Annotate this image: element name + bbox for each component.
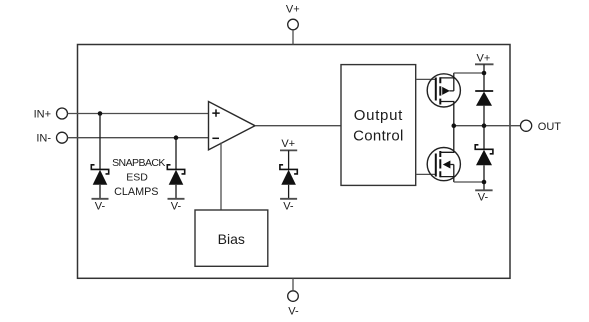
wire Q1 source to V+ node [454,72,484,74]
wire IN- node down to ESD clamp D2 [175,138,177,170]
transistor Q2 body arrow [443,161,451,169]
svg-text:ESD: ESD [126,172,148,184]
snapback ESD diode D1 cathode [91,165,108,174]
wire D1 anode to V- bar [99,185,101,199]
V+ rail bar above supply clamp D3 [280,149,297,151]
wire IN+ node down to ESD clamp D1 [99,114,101,171]
junction node Q1/Q2 drains [452,123,457,128]
terminal V+ top pin [288,19,299,30]
svg-text:IN+: IN+ [34,109,51,121]
diode D4 cathode bar [475,90,493,92]
V+ rail bar output stage [475,63,494,65]
svg-text:V+: V+ [281,138,295,150]
svg-text:V-: V- [288,306,299,318]
transistor Q1 source stub to V+ [440,73,454,91]
snapback diode D5 anode triangle [476,150,492,166]
terminal IN+ pin [57,108,68,119]
junction node output / diodes [482,123,487,128]
transistor Q2 gate bar [435,154,437,177]
svg-text:Bias: Bias [218,231,245,247]
wire V+ bar to supply clamp D3 [288,150,290,170]
wire D3 anode to V- bar [288,185,290,199]
wire op-amp output to Output Control [255,125,341,127]
transistor Q1 channel segments [439,77,441,104]
snapback ESD diode D1 anode triangle [93,170,108,185]
transistor Q1 drain stub down [440,102,454,126]
V- rail bar under D2 [168,198,185,200]
transistor Q2 source stub down [440,165,454,183]
wire V- pin to box bottom [292,278,294,291]
svg-text:Control: Control [353,128,403,145]
op-amp A1 minus input marker [212,137,219,139]
transistor Q2 (NMOS) body circle [427,148,460,181]
junction node IN- / ESD clamp D2 [174,135,179,140]
wire Q2 source to V- node [454,181,484,183]
svg-text:SNAPBACK: SNAPBACK [112,157,165,169]
wire D2 anode to V- bar [175,185,177,199]
svg-text:V+: V+ [286,4,300,16]
wire V+ bar down to diode D4 [483,64,485,91]
terminal IN- pin [57,132,68,143]
V- rail bar under D3 [280,198,297,200]
junction node Q2 source / D5 [482,180,487,185]
snapback ESD diode D2 anode triangle [169,170,184,185]
op-amp A1 triangle [209,102,256,150]
svg-text:V-: V- [95,200,106,212]
wire op-amp to Bias block [220,143,222,211]
svg-text:V-: V- [283,200,294,212]
svg-text:CLAMPS: CLAMPS [114,186,158,198]
snapback supply clamp diode D3 cathode [280,165,297,174]
V- rail bar output stage [475,189,492,191]
terminal OUT pin [521,120,532,131]
snapback ESD diode D2 cathode [167,165,184,174]
wire D5 anode to V- bar [483,165,485,190]
transistor Q1 gate bar [435,78,437,101]
snapback diode D5 cathode [475,145,493,154]
Bias block [195,210,268,266]
Output Control block [341,65,416,186]
wire Output Control to Q2 gate [416,173,436,175]
svg-text:IN-: IN- [36,133,51,145]
svg-text:V-: V- [171,200,182,212]
wire IN+ to op-amp noninverting input [68,113,209,115]
svg-text:OUT: OUT [538,121,562,133]
terminal V- bottom pin [288,291,299,302]
wire D4 anode to output node [483,106,485,126]
junction node V+ / D4 [482,71,487,76]
wire output node down to snapback diode D5 [483,126,485,150]
V- rail bar under D1 [92,198,109,200]
wire V+ pin to box top [292,30,294,45]
junction node IN+ / ESD clamp D1 [98,111,103,116]
wire output node to OUT pin [454,125,521,127]
transistor Q1 (PMOS) body circle [427,74,460,107]
op-amp A1 plus input marker [212,109,219,116]
diode D4 anode triangle [476,92,492,106]
snapback supply clamp diode D3 anode triangle [281,170,296,185]
wire IN- to op-amp inverting input [68,137,209,139]
svg-text:V-: V- [478,191,489,203]
wire Output Control to Q1 gate [416,78,436,80]
transistor Q1 body arrow [442,87,450,95]
transistor Q2 channel segments [439,151,441,177]
svg-text:Output: Output [354,107,403,124]
transistor Q2 drain stub to output [440,126,454,153]
svg-text:V+: V+ [477,53,491,65]
IC boundary box U1 [78,45,511,279]
